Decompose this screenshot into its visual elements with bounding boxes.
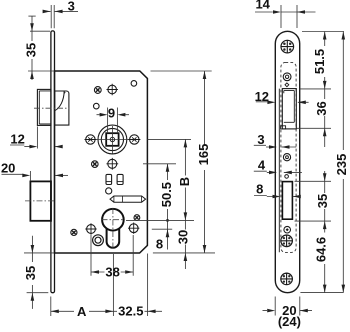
pin / axle bbox=[110, 196, 146, 202]
follower assembly bbox=[98, 125, 127, 154]
small circle bbox=[285, 175, 289, 179]
screws below follower bbox=[92, 161, 99, 168]
svg-text:3: 3 bbox=[257, 132, 264, 147]
svg-text:50.5: 50.5 bbox=[159, 182, 174, 207]
case top ext left + right bbox=[28, 70, 212, 72]
circle with diamond bbox=[284, 226, 291, 233]
dashed reinforcement box bbox=[281, 62, 296, 252]
screws beside cylinder bbox=[71, 229, 77, 235]
dim 12: latch face extension line bbox=[36, 127, 38, 149]
bolt cutout bottom extension line bbox=[295, 220, 332, 222]
svg-text:30: 30 bbox=[175, 230, 190, 244]
deadbolt centerline bbox=[25, 200, 56, 202]
dim 9: arrow tails bbox=[97, 114, 130, 116]
two small squares bbox=[106, 174, 112, 184]
follower side screws bbox=[86, 135, 95, 144]
dim 12 (faceplate): label leader and arrow tails bbox=[256, 101, 309, 104]
svg-text:35: 35 bbox=[23, 43, 38, 57]
dim 165: dimension line bbox=[204, 71, 206, 253]
latch bolt protruding bbox=[37, 89, 51, 125]
dim 235: dimension line bbox=[342, 32, 344, 293]
dim 20 (24): arrow tails bbox=[263, 310, 313, 312]
svg-text:(24): (24) bbox=[278, 314, 301, 329]
dim 3 (faceplate): label leader and arrow tails bbox=[254, 145, 296, 147]
svg-text:12: 12 bbox=[10, 132, 24, 147]
lock case body bbox=[55, 71, 148, 253]
case bottom ext left + right bbox=[24, 252, 215, 254]
dim 8 (faceplate): label leader and arrow tails bbox=[254, 196, 300, 197]
dim 20: right arrow tail bbox=[55, 174, 68, 176]
dim 20: deadbolt face extension line bbox=[29, 171, 31, 181]
deadbolt protruding bbox=[30, 181, 51, 220]
small diamond bbox=[285, 83, 289, 87]
dim 3: dimension line bbox=[43, 10, 78, 12]
svg-text:38: 38 bbox=[105, 265, 119, 280]
svg-text:4: 4 bbox=[258, 157, 266, 172]
screw holes top area bbox=[94, 87, 101, 94]
latch head inside case bbox=[55, 91, 69, 125]
svg-text:36: 36 bbox=[314, 101, 329, 115]
svg-text:32.5: 32.5 bbox=[118, 304, 143, 319]
dim 35 bottom: dimension line bbox=[31, 236, 33, 309]
dim 14: dimension line bbox=[255, 11, 316, 13]
svg-text:165: 165 bbox=[196, 144, 211, 166]
dim 20: label leader line bbox=[2, 173, 24, 175]
screw line ext bbox=[143, 163, 176, 165]
dim A / dim 32.5: dimension line bbox=[51, 310, 162, 312]
dim 8: screw centre extension line bbox=[152, 228, 172, 230]
small circle bbox=[106, 188, 112, 194]
dim 20 (24): extension lines bbox=[275, 297, 300, 316]
dim 35 top: end tick bbox=[28, 15, 35, 17]
dim 12: label leader line bbox=[10, 145, 30, 147]
latch cutout bottom extension line bbox=[297, 127, 332, 129]
plate top ext left bbox=[30, 30, 50, 32]
dim 4 (faceplate): label leader and arrow tails bbox=[254, 171, 302, 172]
svg-text:235: 235 bbox=[334, 154, 349, 176]
dim 3: extension lines above faceplate bbox=[51, 5, 54, 28]
dim 50.5/8: dot terminator at cylinder axis bbox=[166, 219, 169, 222]
dim 38: dimension line bbox=[91, 271, 133, 273]
dim 14: extension lines bbox=[281, 5, 297, 28]
faceplate top extension line bbox=[302, 31, 344, 33]
svg-text:8: 8 bbox=[256, 182, 263, 197]
top screw bbox=[281, 40, 294, 53]
plate outline bbox=[275, 31, 299, 292]
bolt cutout top extension line bbox=[295, 180, 332, 182]
svg-text:8: 8 bbox=[156, 237, 163, 252]
plate bottom ext left bbox=[27, 292, 49, 294]
latch cutout top extension line bbox=[300, 88, 332, 90]
svg-text:9: 9 bbox=[108, 106, 115, 121]
svg-text:35: 35 bbox=[315, 194, 330, 208]
dims 51.5 / 36 / 35 / 64.6: shared dimension line bbox=[324, 32, 326, 293]
svg-text:A: A bbox=[77, 304, 87, 319]
bottom screws bbox=[281, 235, 293, 247]
cylinder center ext bbox=[126, 219, 194, 221]
dim 50.5 and dim 8: shared dimension line bbox=[167, 164, 169, 250]
grommet upper bbox=[283, 73, 291, 81]
follower center ext bbox=[148, 138, 192, 140]
euro profile cylinder hole bbox=[102, 209, 124, 231]
svg-text:B: B bbox=[177, 177, 192, 186]
deadbolt cutout bbox=[282, 182, 292, 220]
right view arrowheads bbox=[267, 10, 345, 312]
grommet ring bbox=[93, 235, 104, 246]
svg-text:12: 12 bbox=[255, 89, 269, 104]
dim 35 top: dimension line bbox=[31, 16, 33, 80]
svg-text:20: 20 bbox=[1, 161, 15, 176]
faceplate (side view) bbox=[51, 31, 55, 293]
grommet mid bbox=[283, 154, 290, 161]
dim 9: extension lines from spindle square bbox=[108, 108, 118, 134]
dim 12: right arrow tail bbox=[55, 146, 62, 148]
dim A / dim 32.5: extension lines bbox=[51, 254, 148, 317]
latch cutout bbox=[282, 89, 296, 129]
latch centerline bbox=[34, 107, 69, 109]
svg-text:3: 3 bbox=[68, 0, 75, 14]
dim 38: extension lines from screw centres bbox=[91, 235, 133, 276]
left view arrowheads bbox=[22, 10, 206, 314]
svg-text:51.5: 51.5 bbox=[312, 49, 327, 74]
inner lip line bbox=[278, 89, 280, 253]
faceplate bottom extension line bbox=[300, 292, 343, 294]
dim B and dim 30: shared dimension line bbox=[184, 139, 186, 269]
svg-text:35: 35 bbox=[23, 266, 38, 280]
svg-text:14: 14 bbox=[255, 0, 270, 12]
svg-text:64.6: 64.6 bbox=[314, 237, 329, 262]
